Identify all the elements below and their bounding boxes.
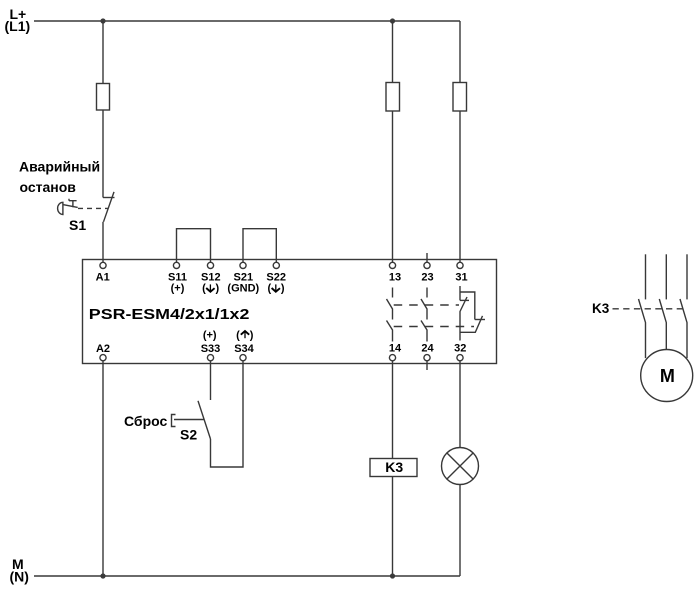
svg-text:(+): (+) <box>171 282 185 294</box>
safety relay body U1 <box>83 260 497 364</box>
wire stub terminal 24 <box>426 361 428 370</box>
svg-text:(GND): (GND) <box>227 282 259 294</box>
svg-text:): ) <box>215 282 219 294</box>
node junction top x=103 <box>100 18 105 23</box>
mechanical linkage (dashed) lower <box>394 326 474 328</box>
wire left branch upper <box>102 21 104 198</box>
arrow up glyph S34 <box>241 331 249 338</box>
contactor K3 contacts (3-phase) <box>613 254 688 358</box>
terminal S33 <box>207 355 213 361</box>
svg-text:(L1): (L1) <box>5 18 31 34</box>
svg-text:Аварийный: Аварийный <box>19 159 100 175</box>
svg-text:Сброс: Сброс <box>124 413 167 429</box>
wire bottom rail M(N) <box>34 575 460 577</box>
wire fuse branch 13 <box>392 21 394 262</box>
svg-text:останов: останов <box>20 179 77 195</box>
terminal 23 <box>424 262 430 268</box>
terminal S12 <box>207 262 213 268</box>
svg-text:K3: K3 <box>385 459 403 475</box>
mechanical linkage (dashed) upper <box>394 304 459 306</box>
svg-text:(: ( <box>202 282 206 294</box>
terminal S11 <box>173 262 179 268</box>
wire K3 coil to bottom rail <box>392 477 394 577</box>
contact 31-32 (NC mirror, 2 contacts) <box>460 286 485 341</box>
svg-text:): ) <box>281 282 285 294</box>
node junction bottom x=103 <box>100 573 105 578</box>
wire 32 to lamp <box>459 361 461 448</box>
switch S1 (NC emergency stop contact) <box>58 192 115 222</box>
svg-text:A1: A1 <box>96 271 110 283</box>
svg-text:): ) <box>250 329 254 341</box>
node junction bottom x=392.5 <box>390 573 395 578</box>
relay coil K3 <box>370 459 417 477</box>
svg-text:A2: A2 <box>96 343 110 355</box>
indicator lamp H1 <box>442 448 479 485</box>
svg-text:32: 32 <box>454 343 466 355</box>
svg-text:23: 23 <box>421 272 433 284</box>
fuse F3 <box>453 83 467 112</box>
wire 14 to K3 coil <box>392 361 394 459</box>
svg-text:24: 24 <box>421 343 434 355</box>
svg-text:S34: S34 <box>234 343 254 355</box>
jumper wire S21-S22 <box>243 229 276 263</box>
terminal 31 <box>457 262 463 268</box>
svg-text:(: ( <box>236 329 240 341</box>
terminal S21 <box>240 262 246 268</box>
motor M1 <box>641 350 693 402</box>
svg-text:(: ( <box>267 282 271 294</box>
arrow down glyph S12 <box>206 284 214 291</box>
terminal A1 <box>100 262 106 268</box>
terminal S22 <box>273 262 279 268</box>
contact 23-24 (NO, 2 in series) <box>421 288 427 342</box>
fuse F1 <box>97 84 110 111</box>
svg-text:S33: S33 <box>201 343 221 355</box>
terminal 14 <box>389 355 395 361</box>
wire lamp to bottom rail <box>459 485 461 577</box>
fuse F2 <box>386 83 400 112</box>
arrow down glyph S22 <box>272 284 280 291</box>
svg-text:14: 14 <box>389 343 402 355</box>
svg-text:PSR-ESM4/2x1/1x2: PSR-ESM4/2x1/1x2 <box>89 306 250 322</box>
wire S1 to A1 <box>102 222 104 262</box>
wire fuse branch 31 <box>459 21 461 262</box>
svg-text:(+): (+) <box>203 329 217 341</box>
svg-text:M: M <box>660 366 675 386</box>
terminal S34 <box>240 355 246 361</box>
svg-text:S1: S1 <box>69 217 86 233</box>
svg-text:31: 31 <box>455 272 467 284</box>
wire top rail L+ <box>34 20 460 22</box>
svg-text:K3: K3 <box>592 301 610 316</box>
svg-text:S2: S2 <box>180 427 197 443</box>
contact 13-14 (NO, 2 in series) <box>387 288 393 342</box>
switch S2 (reset pushbutton NO) <box>172 361 244 467</box>
jumper wire S11-S12 <box>177 229 211 263</box>
wire stub terminal 23 <box>426 253 428 262</box>
svg-text:13: 13 <box>389 272 401 284</box>
svg-text:(N): (N) <box>10 569 29 585</box>
terminal A2 <box>100 355 106 361</box>
terminal 13 <box>389 262 395 268</box>
terminal 24 <box>424 355 430 361</box>
node junction top x=392.5 <box>390 18 395 23</box>
wire A2 down to bottom rail <box>102 361 104 576</box>
terminal 32 <box>457 355 463 361</box>
